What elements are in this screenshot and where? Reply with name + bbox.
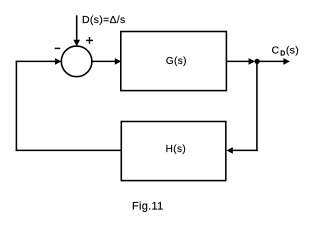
arrowhead into G(s)	[115, 58, 121, 65]
minus sign at summing junction	[55, 47, 61, 49]
summing junction circle	[61, 46, 92, 77]
wire: disturbance input vertical drop	[76, 15, 78, 40]
wire: left feedback vertical	[15, 61, 17, 151]
svg-text:H(s): H(s)	[166, 144, 186, 155]
wire: summing junction to G(s)	[92, 60, 116, 62]
wire: G(s) output to node	[226, 60, 249, 62]
wire: feedback horizontal into H(s)	[233, 149, 258, 151]
block G(s)	[121, 32, 227, 91]
block H(s)	[121, 122, 226, 181]
plus sign at summing junction	[86, 37, 93, 44]
wire: feedback into summing junction (left input)	[16, 60, 56, 62]
svg-text:D(s)=Δ/s: D(s)=Δ/s	[82, 14, 126, 26]
wire: bottom feedback horizontal from H(s) output	[16, 149, 122, 151]
arrowhead into summing junction top	[73, 40, 80, 46]
wire: node to output arrow	[257, 60, 284, 62]
svg-text:Fig.11: Fig.11	[132, 201, 164, 213]
svg-text:CD(s): CD(s)	[272, 45, 300, 58]
arrowhead into H(s) right side	[227, 147, 233, 154]
svg-text:G(s): G(s)	[166, 56, 187, 67]
wire: node down to feedback	[256, 61, 258, 151]
arrowhead output CD(s)	[283, 58, 290, 65]
arrowhead at takeoff node	[249, 58, 255, 65]
node: takeoff point dot	[255, 59, 260, 64]
arrowhead into summing junction left	[55, 58, 61, 65]
